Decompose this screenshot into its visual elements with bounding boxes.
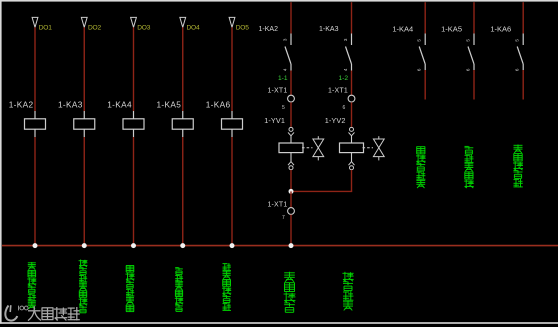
input arrow DO1 (32, 17, 52, 31)
input arrow DO2 (81, 17, 101, 31)
wire terminal to solenoid 1-YV2 (351, 102, 353, 127)
junction dot bus / 1-KA5 wire (180, 243, 185, 248)
svg-text:DO1: DO1 (39, 24, 52, 31)
net label vacuum pump signal (27, 262, 36, 309)
NO contact 1-KA4 (392, 24, 425, 71)
wire join to terminal 1-XT1 pin 7 (290, 191, 292, 207)
svg-text:6: 6 (417, 68, 422, 71)
connector plug bottom of 1-YV1 (288, 153, 294, 170)
svg-text:4: 4 (343, 68, 348, 71)
wire coil 1-KA5 to bottom bus (182, 137, 184, 246)
svg-text:DO4: DO4 (187, 24, 200, 31)
svg-text:1-KA3: 1-KA3 (319, 26, 339, 33)
wire DO4 to coil 1-KA5 (182, 27, 184, 111)
svg-text:6: 6 (343, 105, 346, 111)
svg-text:5: 5 (417, 39, 422, 42)
net label device fill signal (175, 268, 183, 312)
wire below 1-KA6 contact (522, 70, 524, 100)
svg-text:4: 4 (283, 68, 288, 71)
net label contact out 1-KA6 (513, 145, 523, 188)
svg-text:1-XT1: 1-XT1 (267, 87, 287, 94)
wire terminal to solenoid 1-YV1 (290, 102, 292, 127)
NO contact 1-KA2 (259, 26, 291, 71)
wire coil 1-KA4 to bottom bus (133, 137, 135, 246)
svg-text:1-2: 1-2 (338, 75, 348, 82)
wire coil 1-KA6 to bottom bus (231, 137, 233, 246)
net label compressed air valve signal (79, 260, 88, 313)
input arrow DO5 (229, 17, 249, 31)
NO contact 1-KA3 (319, 26, 351, 71)
wire DO2 to coil 1-KA3 (83, 27, 85, 111)
svg-text:6: 6 (466, 68, 471, 71)
svg-text:1-KA5: 1-KA5 (441, 24, 462, 33)
wire contact to terminal, node 1-1 (278, 71, 291, 96)
wire coil 1-KA3 to bottom bus (83, 137, 85, 246)
relay coil 1-KA5 (156, 99, 193, 137)
wire 1-YV1 down to join (290, 170, 292, 192)
wire below 1-KA5 contact (473, 70, 475, 100)
svg-text:1-KA4: 1-KA4 (392, 24, 413, 33)
svg-text:1-KA5: 1-KA5 (156, 99, 181, 109)
wire top feed 1-KA5 contact (473, 2, 475, 33)
svg-text:5: 5 (282, 105, 285, 111)
connector plug top of 1-YV2 (349, 127, 355, 143)
svg-text:DO2: DO2 (88, 24, 101, 31)
junction dot bus / 1-KA3 wire (82, 243, 87, 248)
svg-text:1-KA3: 1-KA3 (58, 99, 83, 109)
svg-text:5: 5 (466, 39, 471, 42)
connector plug bottom of 1-YV2 (349, 153, 355, 170)
svg-text:1-XT1: 1-XT1 (328, 87, 348, 94)
svg-text:1-XT1: 1-XT1 (267, 202, 287, 209)
NO contact 1-KA5 (441, 24, 474, 71)
valve body of 1-YV1 (302, 136, 324, 160)
wire DO5 to coil 1-KA6 (231, 27, 233, 111)
junction dot bus / solenoid return (289, 243, 294, 248)
svg-text:3: 3 (343, 38, 348, 41)
wire terminal pin7 to bottom bus (290, 215, 292, 246)
watermark logo (5, 305, 17, 320)
joining wire between solenoid branches (291, 190, 352, 192)
net label contact out 1-KA4 (416, 147, 426, 188)
svg-text:1-YV1: 1-YV1 (264, 116, 285, 125)
relay coil 1-KA4 (107, 99, 144, 137)
connector plug top of 1-YV1 (288, 127, 294, 143)
bottom common bus wire (2, 245, 558, 247)
net label clamp solenoid valve (342, 272, 353, 311)
terminal 1-XT1 pin 7 (267, 202, 294, 221)
junction dot bus / 1-KA4 wire (131, 243, 136, 248)
svg-text:3: 3 (283, 38, 288, 41)
junction dot bus / 1-KA2 wire (33, 243, 38, 248)
terminal 1-XT1 pin 5 (267, 87, 294, 111)
svg-text:DO5: DO5 (236, 24, 249, 31)
watermark text (28, 306, 41, 320)
svg-text:1-KA6: 1-KA6 (490, 24, 511, 33)
wire top feed 1-KA6 contact (522, 2, 524, 33)
wire below 1-KA4 contact (424, 70, 426, 100)
NO contact 1-KA6 (490, 24, 523, 71)
wire DO1 to coil 1-KA2 (34, 27, 36, 111)
svg-text:1-KA2: 1-KA2 (259, 26, 279, 33)
wire top feed 1-KA2 contact (290, 2, 292, 33)
net label release solenoid valve (284, 272, 296, 313)
svg-text:1-KA2: 1-KA2 (9, 99, 34, 109)
input arrow DO4 (180, 17, 200, 31)
svg-text:7: 7 (282, 215, 285, 221)
svg-text:DO3: DO3 (137, 24, 150, 31)
net label nitrogen fill signal (126, 266, 135, 312)
wire top feed 1-KA3 contact (351, 2, 353, 33)
svg-text:6: 6 (515, 68, 520, 71)
net label robot run signal (222, 263, 231, 311)
wire 1-YV2 down to join (351, 170, 353, 192)
wire top feed 1-KA4 contact (424, 2, 426, 33)
net label contact out 1-KA5 (464, 146, 474, 188)
svg-text:1-YV2: 1-YV2 (325, 116, 346, 125)
relay coil 1-KA2 (9, 99, 46, 137)
junction dot at solenoid branch join (289, 189, 294, 194)
solenoid coil 1-YV2 (325, 116, 364, 152)
svg-text:1-1: 1-1 (278, 75, 288, 82)
input arrow DO3 (131, 17, 151, 31)
wire contact to terminal, node 1-2 (338, 71, 351, 96)
valve body of 1-YV2 (363, 136, 385, 160)
svg-text:1-KA6: 1-KA6 (206, 99, 231, 109)
solenoid coil 1-YV1 (264, 116, 303, 152)
relay coil 1-KA6 (206, 99, 243, 137)
wire coil 1-KA2 to bottom bus (34, 137, 36, 246)
relay coil 1-KA3 (58, 99, 95, 137)
junction dot bus / 1-KA6 wire (230, 243, 235, 248)
wire DO3 to coil 1-KA4 (133, 27, 135, 111)
svg-text:5: 5 (515, 39, 520, 42)
svg-text:1-KA4: 1-KA4 (107, 99, 132, 109)
terminal 1-XT1 pin 6 (328, 87, 355, 111)
